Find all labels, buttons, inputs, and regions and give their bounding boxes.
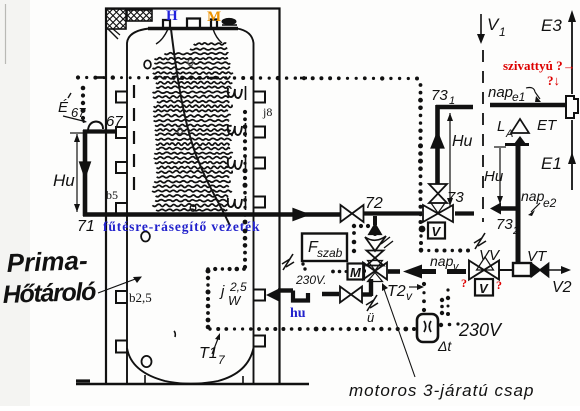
top blob fitting: [222, 18, 237, 25]
right wall fittings: [254, 92, 266, 103]
tank feet: [144, 375, 146, 384]
motor 3-way valve: [363, 263, 375, 280]
dotted wire to dt box right: [446, 288, 449, 291]
coil diagonal pipe: [171, 29, 230, 226]
svg-text:230V: 230V: [458, 320, 503, 340]
V box under 73: [428, 223, 445, 239]
svg-text:É: É: [58, 99, 69, 116]
dashed level line inside tank left: [133, 85, 135, 200]
dotted link from T stub: [352, 224, 356, 228]
Hu measure right: [499, 148, 501, 204]
dotted signal line vertical x420: [419, 83, 423, 87]
tank bottom dish: [127, 348, 254, 384]
dotted vent line: [81, 86, 86, 91]
svg-text:V2: V2: [552, 279, 572, 296]
vent arrow above check valve: [369, 224, 382, 235]
valve under check: [367, 251, 384, 259]
dotted link dt to 230V: [439, 323, 443, 327]
main pipe 71->72: [83, 212, 341, 217]
svg-text:67: 67: [106, 113, 123, 130]
top fitting M stub: [211, 20, 217, 29]
V1 arrow: [480, 14, 482, 40]
svg-text:v: v: [406, 289, 413, 303]
V box under VV: [475, 279, 493, 296]
3-way valve 73: [423, 205, 438, 222]
pipe valve->M-valve leg: [362, 292, 372, 296]
ET connector: [566, 96, 578, 118]
svg-text:230V.: 230V.: [295, 273, 326, 287]
dotted wire to dt box left: [422, 282, 426, 286]
svg-text:j8: j8: [262, 105, 272, 119]
ground line: [76, 383, 309, 386]
svg-text:e1: e1: [512, 90, 525, 104]
annotation line to 3-way valve: [384, 289, 415, 377]
valve on hu line: [340, 287, 351, 303]
valve 72: [341, 205, 353, 222]
svg-text:2,5: 2,5: [229, 280, 247, 294]
Hu measure line left: [76, 134, 78, 212]
tank outer insulation frame: [106, 9, 280, 385]
hu return arrow into tank: [266, 288, 280, 302]
svg-text:ü: ü: [367, 310, 374, 325]
svg-text:Hu: Hu: [53, 171, 75, 190]
dip tubes from plate: [156, 29, 168, 44]
pipe after 73: [455, 211, 474, 215]
svg-text:Hu: Hu: [484, 168, 504, 185]
pipe nape1: [490, 103, 566, 108]
svg-text:L: L: [497, 118, 505, 135]
T stub below junction: [373, 216, 377, 225]
svg-text:b2,5: b2,5: [129, 290, 152, 305]
svg-text:1: 1: [499, 25, 506, 39]
V2 outlet arrow: [549, 269, 566, 271]
arrow to safety valve: [63, 116, 85, 122]
svg-text:M: M: [350, 265, 362, 280]
check valve cup: [365, 236, 386, 251]
Hu measure line mid: [449, 113, 451, 206]
napv pipe big arrow: [403, 265, 422, 279]
svg-text:szivattyú ?→: szivattyú ?→: [503, 58, 576, 73]
valve 73 shutoff: [429, 184, 447, 194]
top fitting middle bracket: [187, 19, 200, 29]
dotted signal line horizontal y78: [76, 75, 80, 79]
svg-text:72: 72: [365, 195, 383, 212]
svg-text:fűtésre-rásegítő vezeték: fűtésre-rásegítő vezeték: [103, 219, 260, 234]
hatch mark near hu: [283, 254, 293, 270]
svg-text:73: 73: [447, 189, 464, 206]
VT union: [499, 269, 514, 271]
svg-text:H: H: [166, 8, 178, 24]
VT valve: [532, 264, 541, 277]
uu sensor marks: [228, 88, 242, 98]
E1 riser: [571, 120, 573, 190]
apostrophe mark: [174, 331, 175, 337]
svg-text:?: ?: [461, 276, 467, 290]
svg-text:VT: VT: [527, 248, 548, 265]
dt thermostat box: [417, 314, 438, 342]
svg-text:T2: T2: [387, 283, 406, 300]
svg-text:71: 71: [77, 218, 95, 235]
dotted wire M to 230V: [331, 270, 335, 274]
svg-text:E1: E1: [541, 154, 562, 173]
top fitting H stub: [163, 20, 170, 28]
riser pipe: [435, 105, 440, 184]
svg-text:73: 73: [431, 87, 448, 104]
svg-text:nap: nap: [521, 188, 545, 204]
svg-text:nap: nap: [430, 253, 454, 269]
svg-text:e2: e2: [543, 196, 557, 210]
svg-text:2: 2: [512, 225, 519, 237]
svg-text:Δt: Δt: [437, 338, 452, 354]
E3 riser: [571, 14, 573, 94]
svg-text:Hu: Hu: [452, 133, 473, 150]
svg-text:V: V: [432, 224, 442, 239]
dotted sensor line T1: [243, 229, 248, 234]
svg-text:M: M: [207, 9, 221, 25]
left wall fittings: [116, 92, 127, 103]
svg-text:Hőtároló: Hőtároló: [2, 278, 96, 309]
crosshatch insulation top-left: [106, 9, 126, 29]
svg-text:W: W: [228, 293, 242, 308]
svg-text:E3: E3: [541, 16, 562, 35]
flow arrow right: [293, 209, 309, 221]
dotted wire napv top: [419, 248, 423, 252]
M actuator box: [348, 264, 365, 280]
svg-text:?↓: ?↓: [547, 73, 560, 88]
pointer arrow: [98, 278, 138, 293]
pipe nape2 vertical: [516, 146, 521, 265]
tank top plate: [148, 27, 238, 30]
svg-text:?: ?: [496, 278, 502, 292]
pipe 67 down leg: [83, 130, 88, 216]
tank body walls: [127, 29, 254, 385]
svg-text:hu: hu: [290, 306, 306, 321]
safety valve dome: [88, 122, 103, 131]
small circles in tank: [144, 60, 151, 68]
pipe 731 top: [436, 105, 473, 109]
svg-text:1: 1: [449, 95, 455, 107]
svg-text:nap: nap: [488, 84, 513, 101]
hatch and u below: [367, 295, 377, 311]
svg-text:73: 73: [496, 216, 513, 233]
svg-text:szab: szab: [317, 246, 343, 260]
dotted line inside tank right: [243, 110, 247, 114]
732 outlet arrow: [497, 206, 517, 211]
svg-text:ET: ET: [537, 117, 558, 134]
svg-text:Prima-: Prima-: [6, 245, 88, 278]
controller box F szab: [302, 234, 347, 262]
hatch above VV: [475, 233, 485, 249]
dashed boundary line: [482, 50, 484, 222]
flow arrow down: [80, 162, 91, 178]
tank heat-exchanger coil squiggle fill: [194, 43, 227, 45]
svg-text:V: V: [479, 281, 489, 296]
VV 3-way valve: [469, 261, 484, 280]
svg-text:motoros 3-járatú csap: motoros 3-járatú csap: [349, 381, 534, 400]
pipe 72->73: [363, 211, 422, 215]
scan edge line: [5, 4, 7, 64]
svg-text:b5: b5: [106, 188, 118, 202]
pipe 67 horizontal: [83, 129, 116, 133]
